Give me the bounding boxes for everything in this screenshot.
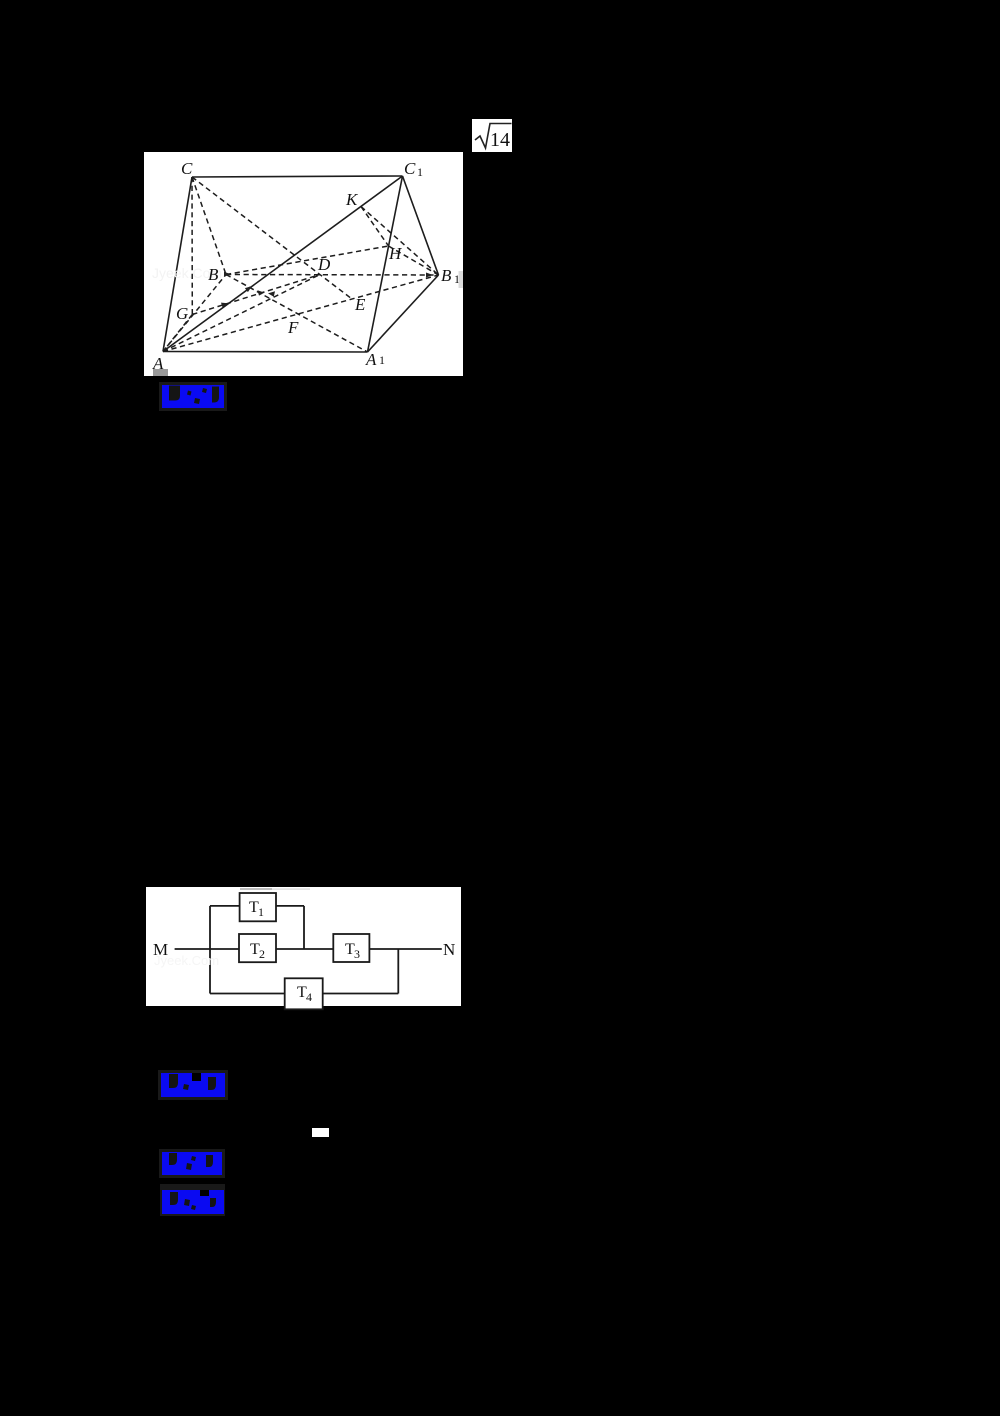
svg-text:1: 1 [379, 353, 385, 367]
svg-text:4: 4 [306, 990, 312, 1004]
svg-text:E: E [354, 295, 366, 314]
svg-text:D: D [317, 255, 331, 274]
svg-text:N: N [443, 940, 455, 959]
svg-text:3: 3 [354, 947, 360, 961]
svg-text:H: H [388, 244, 403, 263]
svg-text:C: C [181, 159, 193, 178]
svg-text:C: C [404, 159, 416, 178]
svg-text:14: 14 [490, 129, 510, 151]
svg-text:K: K [345, 190, 359, 209]
svg-text:B: B [441, 266, 452, 285]
svg-text:F: F [287, 318, 299, 337]
svg-text:1: 1 [258, 905, 264, 919]
svg-text:B: B [208, 265, 219, 284]
svg-text:M: M [153, 940, 168, 959]
svg-text:A: A [365, 350, 377, 369]
svg-text:2: 2 [259, 947, 265, 961]
svg-text:G: G [176, 304, 188, 323]
svg-text:1: 1 [417, 165, 423, 179]
